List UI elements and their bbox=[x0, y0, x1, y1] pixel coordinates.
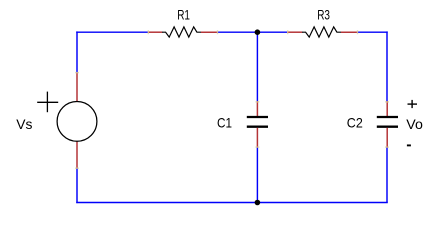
svg-text:C1: C1 bbox=[217, 115, 232, 131]
svg-text:R3: R3 bbox=[317, 7, 330, 23]
wire middle vertical lower bbox=[256, 147, 258, 203]
pin end marker Vs bottom bbox=[75, 168, 79, 169]
minus polarity marker of Vo bbox=[407, 144, 411, 146]
svg-text:Vo: Vo bbox=[406, 116, 423, 132]
pin end marker Vs top bbox=[75, 72, 79, 73]
voltage source Vs bbox=[37, 72, 97, 168]
pin end marker C1 top bbox=[255, 101, 259, 102]
wire left vertical upper bbox=[76, 31, 78, 73]
pin end marker R3 right bbox=[357, 30, 358, 34]
pin end marker R3 left bbox=[287, 30, 288, 34]
svg-text:Vs: Vs bbox=[16, 116, 32, 132]
wire right vertical upper bbox=[386, 31, 388, 101]
wire right vertical lower bbox=[386, 147, 388, 203]
pin end marker C1 bottom bbox=[255, 146, 259, 147]
wire middle vertical upper bbox=[256, 32, 258, 102]
pin end marker R1 right bbox=[217, 30, 218, 34]
wire top-right horizontal bbox=[357, 31, 388, 33]
pin end marker C2 bottom bbox=[385, 146, 389, 147]
junction node bottom bbox=[255, 200, 261, 206]
svg-text:R1: R1 bbox=[177, 7, 190, 23]
junction node top bbox=[255, 29, 261, 35]
resistor R3 bbox=[287, 27, 358, 37]
wire bottom horizontal bbox=[76, 202, 388, 204]
wire left vertical lower bbox=[76, 168, 78, 203]
resistor R1 bbox=[148, 27, 218, 37]
svg-text:C2: C2 bbox=[347, 115, 363, 131]
pin end marker C2 top bbox=[385, 101, 389, 102]
capacitor C1 bbox=[247, 101, 268, 148]
wire top-middle horizontal bbox=[217, 31, 287, 33]
wire top-left horizontal bbox=[76, 31, 148, 33]
pin end marker R1 left bbox=[148, 30, 149, 34]
plus polarity marker of Vo bbox=[408, 100, 418, 108]
capacitor C2 bbox=[377, 101, 398, 148]
